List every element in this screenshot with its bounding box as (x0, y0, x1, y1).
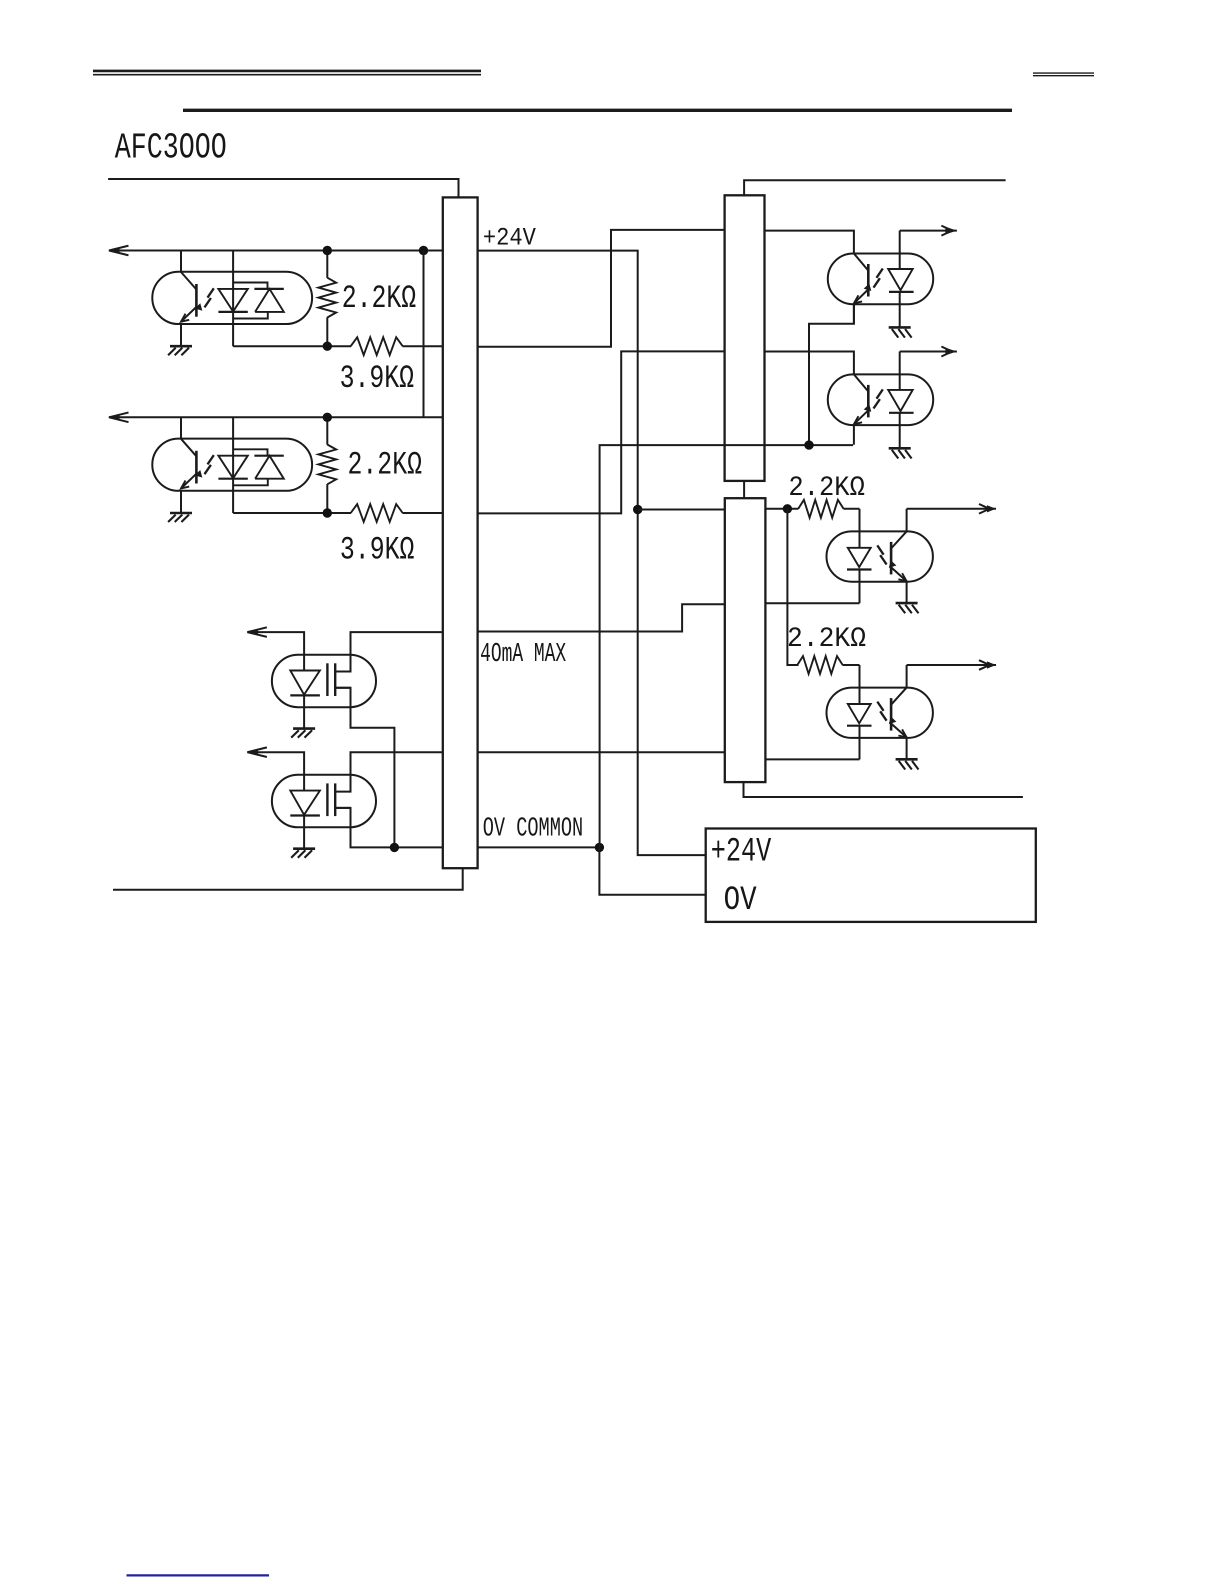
junction node emitter returns (804, 440, 813, 449)
wire PC5 LED return to CN3 (765, 602, 859, 604)
svg-text:AFC3OOO: AFC3OOO (115, 127, 227, 168)
wire PM2 drain from CN1 (336, 752, 443, 791)
label +24V supply (711, 833, 772, 871)
junction node PM sources (390, 843, 399, 852)
svg-text:+24V: +24V (483, 225, 536, 252)
label R3 value (348, 447, 423, 484)
junction node PC1-PC2 link (419, 246, 428, 255)
svg-text:OV: OV (724, 882, 757, 920)
wire CN1 row1 return to CN2 (478, 230, 725, 347)
optocoupler PC6 (827, 665, 933, 759)
label +24V top (483, 225, 536, 252)
ground PC4 LED (889, 448, 912, 458)
wire PC1 to PC2 input link (423, 251, 425, 418)
device label AFC3000 (115, 127, 227, 168)
wire PC3 output arrow (900, 226, 957, 236)
ground PC2 emitter (168, 513, 192, 522)
wire PC6 output arrow (907, 660, 996, 670)
junction node R4 feed (323, 508, 332, 517)
svg-text:2.2KΩ: 2.2KΩ (787, 624, 866, 655)
svg-text:3.9KΩ: 3.9KΩ (340, 531, 415, 568)
wire CN2 top feed (744, 180, 1006, 195)
connector CN2 terminal block (725, 195, 765, 481)
connector CN3 terminal block (725, 498, 766, 782)
svg-text:3.9KΩ: 3.9KΩ (340, 360, 415, 397)
wire PC4 output arrow (900, 347, 957, 357)
junction node +24V branch (633, 505, 642, 514)
wire PC6 LED return to CN3 (765, 758, 859, 760)
optocoupler PC5 (827, 509, 933, 603)
label 0V COMMON (483, 815, 584, 845)
svg-text:2.2KΩ: 2.2KΩ (342, 280, 417, 317)
optocoupler PC3 (828, 231, 933, 328)
label R2 value (340, 360, 415, 397)
photoMOS relay PM2 (272, 775, 376, 849)
wire PC1 collector from CN2 (765, 231, 854, 254)
ground PC1 emitter (168, 346, 192, 355)
wire PM1 output with left arrow (247, 627, 304, 654)
wire resistor feed drop to R6 (787, 509, 798, 665)
wire PC1 input line with left arrow (109, 246, 443, 272)
wire 0V common CN1 to node (478, 846, 600, 848)
wire PM2 source to CN1 0V pin (335, 808, 443, 848)
label R5 value (788, 473, 865, 504)
wire PM2 output with left arrow (247, 747, 304, 774)
wire 0V node to supply box (599, 847, 705, 894)
label R6 value (787, 624, 866, 655)
wire CN3 right pin to resistor feed node (765, 508, 798, 510)
wire PC3 emitter to return node (809, 304, 854, 445)
label 0V supply (724, 882, 757, 920)
wire CN2 to CN3 link (743, 481, 745, 498)
junction node PC1 input (323, 246, 332, 255)
resistor R3 2.2K (318, 417, 336, 513)
photoMOS relay PM1 (272, 655, 376, 729)
junction node R2 feed (323, 342, 332, 351)
ground PC5 emitter (896, 603, 919, 613)
junction node 0V common (595, 843, 604, 852)
wire +24V rail CN1 to supply box (478, 251, 706, 856)
wire CN1 bottom tail to bottom rail (113, 868, 463, 890)
resistor R4 3.9K (351, 504, 443, 522)
svg-text:2.2KΩ: 2.2KΩ (348, 447, 423, 484)
svg-text:OV COMMON: OV COMMON (483, 815, 584, 845)
wire PC1 LED return (233, 345, 351, 347)
label R4 value (340, 531, 415, 568)
ground PC3 LED (889, 327, 912, 337)
ground PM1 LED (291, 729, 315, 738)
wire PM1 source to 0V node (335, 688, 394, 848)
footer underline (127, 1574, 270, 1576)
connector CN1 terminal block (443, 197, 478, 868)
resistor R5 2.2K (798, 500, 859, 518)
svg-text:+24V: +24V (711, 833, 772, 871)
optocoupler PC2 (AC input) (152, 417, 312, 513)
svg-text:4OmA MAX: 4OmA MAX (480, 640, 566, 670)
ground PC6 emitter (896, 759, 919, 769)
optocoupler PC1 (AC input) (152, 251, 312, 347)
wire CN1 to CN3 lower link (478, 751, 725, 753)
label 40mA MAX (480, 640, 566, 670)
wire PC2 LED return (233, 512, 351, 514)
junction node resistor feed (783, 504, 792, 513)
ground PM2 LED (291, 849, 315, 858)
junction node PC2 input (323, 413, 332, 422)
wire PC5 output arrow (907, 504, 996, 514)
resistor R6 2.2K (797, 656, 859, 674)
wire PC2 input line with left arrow (109, 413, 443, 439)
optocoupler PC4 (828, 352, 933, 449)
wire output return rail (600, 445, 854, 847)
wire CN1 row2 return to CN2 (478, 351, 725, 513)
resistor R1 2.2K (318, 251, 336, 347)
wire CN1 to CN3 upper link (478, 604, 725, 631)
AFC3000 boundary wire (108, 179, 458, 198)
wire PC2 collector from CN2 (765, 352, 854, 375)
resistor R2 3.9K (351, 337, 443, 355)
wire CN3 bottom tail rail (744, 782, 1023, 797)
power supply box (706, 829, 1036, 922)
wire PM1 drain from CN1 (336, 632, 443, 671)
wire +24V branch to CN3 (638, 509, 725, 511)
label R1 value (342, 280, 417, 317)
